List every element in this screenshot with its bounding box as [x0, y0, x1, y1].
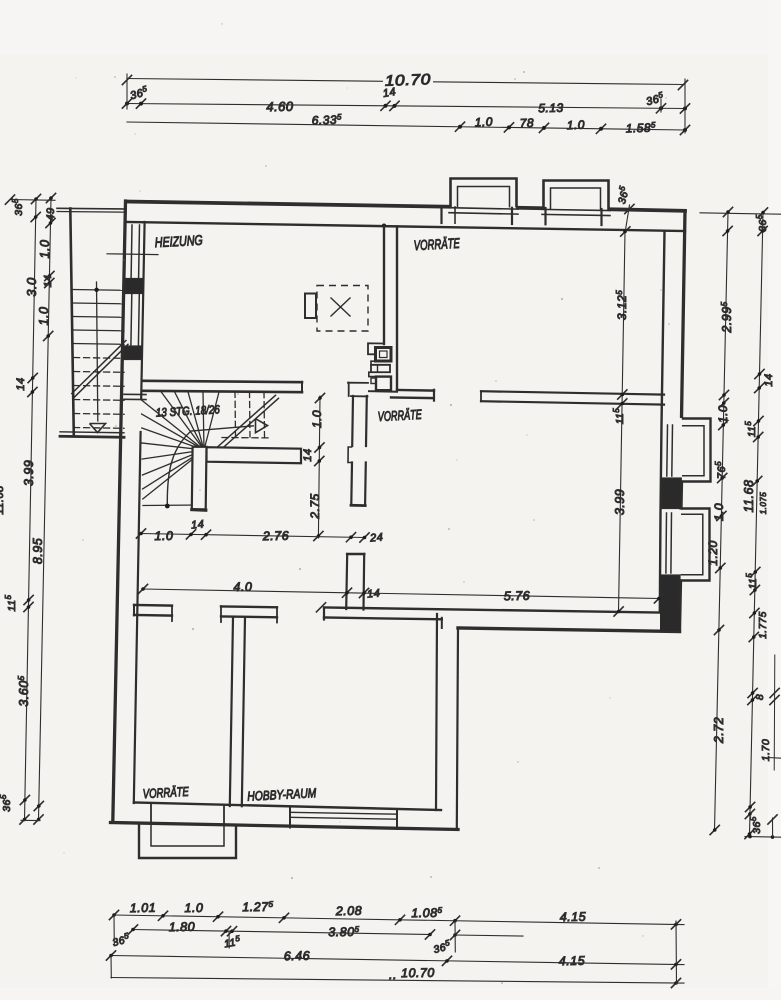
exterior stair enclosure bottom wall: [60, 432, 124, 433]
svg-text:1.0: 1.0: [716, 405, 730, 423]
bay 2 inner: [681, 514, 703, 575]
chimney flue 3: [376, 377, 391, 391]
middle room door jamb notch: [348, 447, 352, 463]
middle room left wall upper: [351, 396, 354, 446]
partition top junction dot: [382, 224, 386, 228]
svg-text:3.99: 3.99: [22, 460, 36, 486]
exterior stair enclosure top wall: [57, 207, 126, 210]
bay 1 inner: [682, 426, 704, 476]
middle room left wall bottom cap: [351, 504, 365, 507]
top exterior wall inner face: [126, 222, 685, 231]
exterior stair down arrow: [90, 424, 106, 433]
boiler cross: [331, 298, 350, 316]
svg-text:4.15: 4.15: [559, 954, 586, 968]
right outer chain line: [750, 213, 764, 836]
bottom exterior wall outer face: [111, 823, 459, 830]
svg-text:78: 78: [519, 116, 534, 130]
left dim bottom connector: [21, 819, 40, 821]
storage room top wall (south of top-right room): [481, 391, 664, 394]
chimney flue 2: [371, 365, 390, 372]
bay 2 outer: [681, 509, 710, 581]
svg-text:49: 49: [45, 207, 57, 220]
svg-text:VORRÄTE: VORRÄTE: [377, 407, 422, 424]
svg-text:14: 14: [42, 275, 54, 288]
svg-text:1.075: 1.075: [759, 492, 768, 515]
bottom chain row3: [111, 956, 684, 965]
window well 1 glazing: [449, 208, 518, 209]
top dimension line third row: [127, 122, 685, 130]
svg-text:5.13: 5.13: [538, 101, 564, 115]
bottom exterior wall inner face: [134, 803, 441, 811]
right wall pier below bay 2: [660, 575, 680, 612]
stair bottom horizontal chain: [141, 534, 365, 538]
window well 1 jamb left: [440, 207, 442, 224]
winder stair walking line: [167, 426, 254, 505]
left wall pier 2: [124, 346, 142, 360]
svg-text:14: 14: [302, 448, 314, 461]
svg-text:14: 14: [763, 373, 775, 386]
right exterior wall outer face: [682, 211, 686, 418]
svg-text:14: 14: [191, 518, 205, 531]
chimney bottom merge: [369, 390, 397, 393]
heizung bottom wall junction at left wall: [124, 393, 146, 395]
left exterior wall inner face upper: [141, 222, 144, 398]
top dim terminator right: [684, 79, 686, 133]
exterior stair treads: [73, 289, 124, 292]
hobby room top wall bottom face: [324, 618, 442, 620]
hobby room right wall right face: [457, 628, 458, 829]
svg-text:11.68: 11.68: [742, 480, 756, 513]
svg-text:3.99: 3.99: [613, 489, 627, 515]
exterior stair enclosure left wall: [70, 209, 74, 437]
svg-text:1.80: 1.80: [169, 920, 196, 934]
svg-text:14: 14: [15, 377, 27, 390]
room partition vorraete/hobby right face: [242, 617, 245, 806]
top-right room vertical chain: [619, 232, 626, 613]
south-east corner step: [441, 618, 443, 628]
left exterior wall outer face: [113, 201, 126, 822]
chimney step outline: [368, 343, 384, 354]
bottom chain row4: [111, 978, 684, 984]
svg-text:14: 14: [367, 587, 381, 600]
svg-text:1.20: 1.20: [706, 540, 720, 565]
svg-text:4.60: 4.60: [266, 99, 294, 114]
svg-text:3.0: 3.0: [24, 277, 39, 297]
exterior stoop outer: [139, 823, 236, 858]
exterior stoop inner step: [151, 825, 224, 847]
svg-text:14: 14: [382, 86, 397, 100]
left wall window 2 glazing: [130, 294, 133, 346]
exterior stair walking line: [97, 282, 98, 421]
svg-text:6.46: 6.46: [284, 949, 311, 963]
light well 2 outer: [544, 181, 609, 211]
svg-text:2.08: 2.08: [335, 904, 363, 918]
light well 1 outer: [451, 179, 517, 208]
middle room left wall lower: [350, 463, 353, 505]
svg-text:8: 8: [754, 694, 766, 700]
chimney step 2: [369, 372, 376, 376]
svg-text:4.0: 4.0: [233, 580, 252, 594]
cellar door opening jambs bottom-left: [150, 805, 152, 824]
stair hall landing wall vertical: [192, 447, 207, 510]
hobby room window glazing bottom wall: [290, 812, 397, 814]
winder stair direction arrow: [256, 419, 268, 433]
right wall pier between bays: [661, 478, 681, 509]
winder stair treads fan: [161, 392, 204, 450]
right dim bottom connector: [745, 836, 781, 839]
svg-text:11.68: 11.68: [0, 485, 6, 515]
room partition vorraete/hobby left face: [230, 617, 233, 806]
left exterior wall inner face lower: [134, 432, 141, 803]
svg-text:5.76: 5.76: [504, 589, 531, 603]
south wall of right section inner face: [324, 608, 660, 613]
bottom right connector: [675, 921, 678, 984]
exterior stair treads dashed: [74, 357, 124, 360]
svg-text:8.95: 8.95: [31, 538, 45, 564]
middle room top wall: [397, 389, 434, 392]
svg-text:VORRÄTE: VORRÄTE: [413, 235, 460, 253]
svg-text:1.0: 1.0: [310, 410, 324, 428]
window well 2 glazing: [542, 209, 610, 210]
bay 1 outer: [682, 419, 711, 482]
chimney flue 1 hatched: [376, 348, 392, 362]
right wall bay window 1 glazing: [666, 425, 669, 476]
svg-text:2.72: 2.72: [712, 717, 726, 744]
left wall window 1 glazing: [130, 225, 133, 278]
svg-text:1.01: 1.01: [130, 901, 157, 915]
left wall pier 1: [125, 279, 143, 294]
right inner chain line: [715, 212, 729, 830]
window well 1 pier jambs: [511, 208, 513, 224]
top-right room wall thickness dim: [625, 205, 630, 233]
winder stair dashed treads above cut: [234, 391, 237, 437]
top dimension line second row: [127, 104, 685, 109]
right exterior wall inner face: [660, 231, 665, 613]
svg-text:1.0: 1.0: [475, 115, 494, 130]
svg-text:1.0: 1.0: [154, 529, 173, 543]
left outer chain line: [25, 199, 37, 820]
right dim edge mark: [768, 757, 781, 760]
svg-text:VORRÄTE: VORRÄTE: [142, 784, 189, 801]
svg-text:10.70: 10.70: [401, 966, 435, 981]
light well 2 inner: [551, 188, 601, 210]
window well 2 jamb right: [600, 209, 602, 225]
svg-text:HEIZUNG: HEIZUNG: [154, 232, 203, 250]
hall horizontal chain 4.0 / 5.76: [143, 589, 660, 599]
bottom chain row1: [114, 915, 684, 925]
top exterior wall outer face: [126, 202, 449, 207]
boiler side rect: [305, 294, 316, 319]
right dim bottom 36.5 stub: [772, 818, 774, 837]
left inner chain line: [39, 198, 52, 820]
light well 1 inner: [458, 187, 510, 208]
heizung window sill line: [107, 253, 158, 256]
left dims top connector: [10, 199, 55, 202]
svg-text:1.0: 1.0: [37, 307, 51, 326]
bottom left connector: [110, 955, 112, 978]
south-east corner fill: [660, 612, 680, 632]
hobby room window jambs: [289, 808, 291, 828]
partition heizung/vorraete right face: [396, 226, 398, 390]
winder stair bottom tread: [143, 504, 200, 507]
chimney mid band: [371, 361, 390, 365]
hobby room top wall left cap: [323, 608, 325, 620]
right wall bay window 2 glazing: [665, 513, 668, 573]
svg-text:1.0: 1.0: [38, 240, 52, 259]
bottom-left rooms top wall segment 2: [221, 605, 277, 608]
svg-text:2.75: 2.75: [308, 493, 322, 519]
svg-text:4.15: 4.15: [560, 910, 587, 924]
svg-text:1.0: 1.0: [712, 503, 726, 521]
boiler dashed box: [317, 286, 368, 332]
scan speckles: [46, 23, 670, 984]
middle vertical chain near stair: [318, 396, 320, 538]
partition heizung/vorraete left face: [383, 226, 385, 344]
right dim edge chain stub: [773, 655, 776, 770]
svg-text:1.775: 1.775: [758, 611, 769, 639]
right dims top connector: [700, 213, 781, 214]
bottom-left rooms top wall segment 1: [134, 604, 172, 607]
svg-text:..: ..: [389, 968, 397, 982]
svg-text:1.0: 1.0: [567, 118, 586, 133]
heizung bottom wall: [143, 381, 302, 382]
south wall of right section outer face: [458, 628, 680, 632]
stair hall landing wall horizontal: [207, 447, 302, 463]
hall stub wall: [346, 554, 347, 609]
winder stair cut line: [218, 395, 276, 446]
exterior stair cut line: [72, 341, 126, 394]
top dimension line total 10.70: [127, 79, 683, 85]
middle room top wall left joint: [348, 382, 368, 384]
svg-text:1.0: 1.0: [184, 901, 203, 915]
svg-text:2.76: 2.76: [262, 529, 290, 543]
bottom chain row2: [133, 930, 430, 935]
winder stair dashed landing line: [222, 437, 268, 439]
svg-text:1.70: 1.70: [760, 739, 772, 761]
top dim terminator left: [126, 74, 128, 109]
svg-text:24: 24: [369, 531, 384, 544]
hobby room right wall left face: [436, 614, 437, 810]
